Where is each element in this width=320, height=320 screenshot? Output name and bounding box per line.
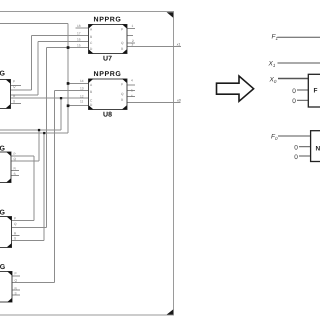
- svg-text:U8: U8: [103, 112, 112, 119]
- svg-text:5: 5: [131, 88, 133, 92]
- svg-text:1: 1: [132, 24, 134, 28]
- svg-text:N: N: [316, 146, 320, 153]
- svg-text:x0: x0: [176, 99, 181, 103]
- svg-text:F: F: [314, 88, 318, 95]
- svg-text:S: S: [14, 172, 16, 176]
- svg-text:12: 12: [80, 95, 84, 99]
- svg-text:NPPRG: NPPRG: [0, 210, 6, 217]
- svg-text:6: 6: [131, 94, 133, 98]
- svg-text:13: 13: [80, 86, 84, 90]
- svg-text:0: 0: [292, 88, 296, 95]
- svg-text:NPPRG: NPPRG: [0, 264, 6, 271]
- svg-text:S: S: [15, 292, 17, 296]
- svg-text:S: S: [13, 99, 15, 103]
- svg-text:0: 0: [294, 144, 298, 151]
- svg-text:x1: x1: [176, 43, 181, 47]
- svg-text:NPPRG: NPPRG: [0, 71, 6, 78]
- svg-text:4: 4: [131, 79, 133, 83]
- svg-text:3: 3: [132, 43, 134, 47]
- svg-text:P: P: [121, 82, 123, 86]
- svg-text:NPPRG: NPPRG: [94, 71, 122, 78]
- svg-text:S: S: [14, 237, 16, 241]
- svg-text:B: B: [90, 35, 92, 39]
- svg-text:U7: U7: [103, 56, 112, 63]
- svg-text:14: 14: [80, 79, 84, 83]
- svg-text:P: P: [15, 271, 17, 275]
- svg-text:11: 11: [80, 99, 84, 103]
- svg-text:17: 17: [77, 32, 81, 36]
- svg-text:P: P: [14, 217, 16, 221]
- svg-text:15: 15: [77, 44, 81, 48]
- svg-text:NPPRG: NPPRG: [94, 17, 122, 24]
- svg-text:18: 18: [77, 24, 81, 28]
- svg-text:16: 16: [77, 37, 81, 41]
- svg-text:P: P: [121, 28, 123, 32]
- svg-text:P: P: [14, 152, 16, 156]
- svg-text:B: B: [90, 90, 92, 94]
- svg-text:P: P: [13, 79, 15, 83]
- svg-text:0: 0: [294, 154, 298, 161]
- svg-text:0: 0: [292, 98, 296, 105]
